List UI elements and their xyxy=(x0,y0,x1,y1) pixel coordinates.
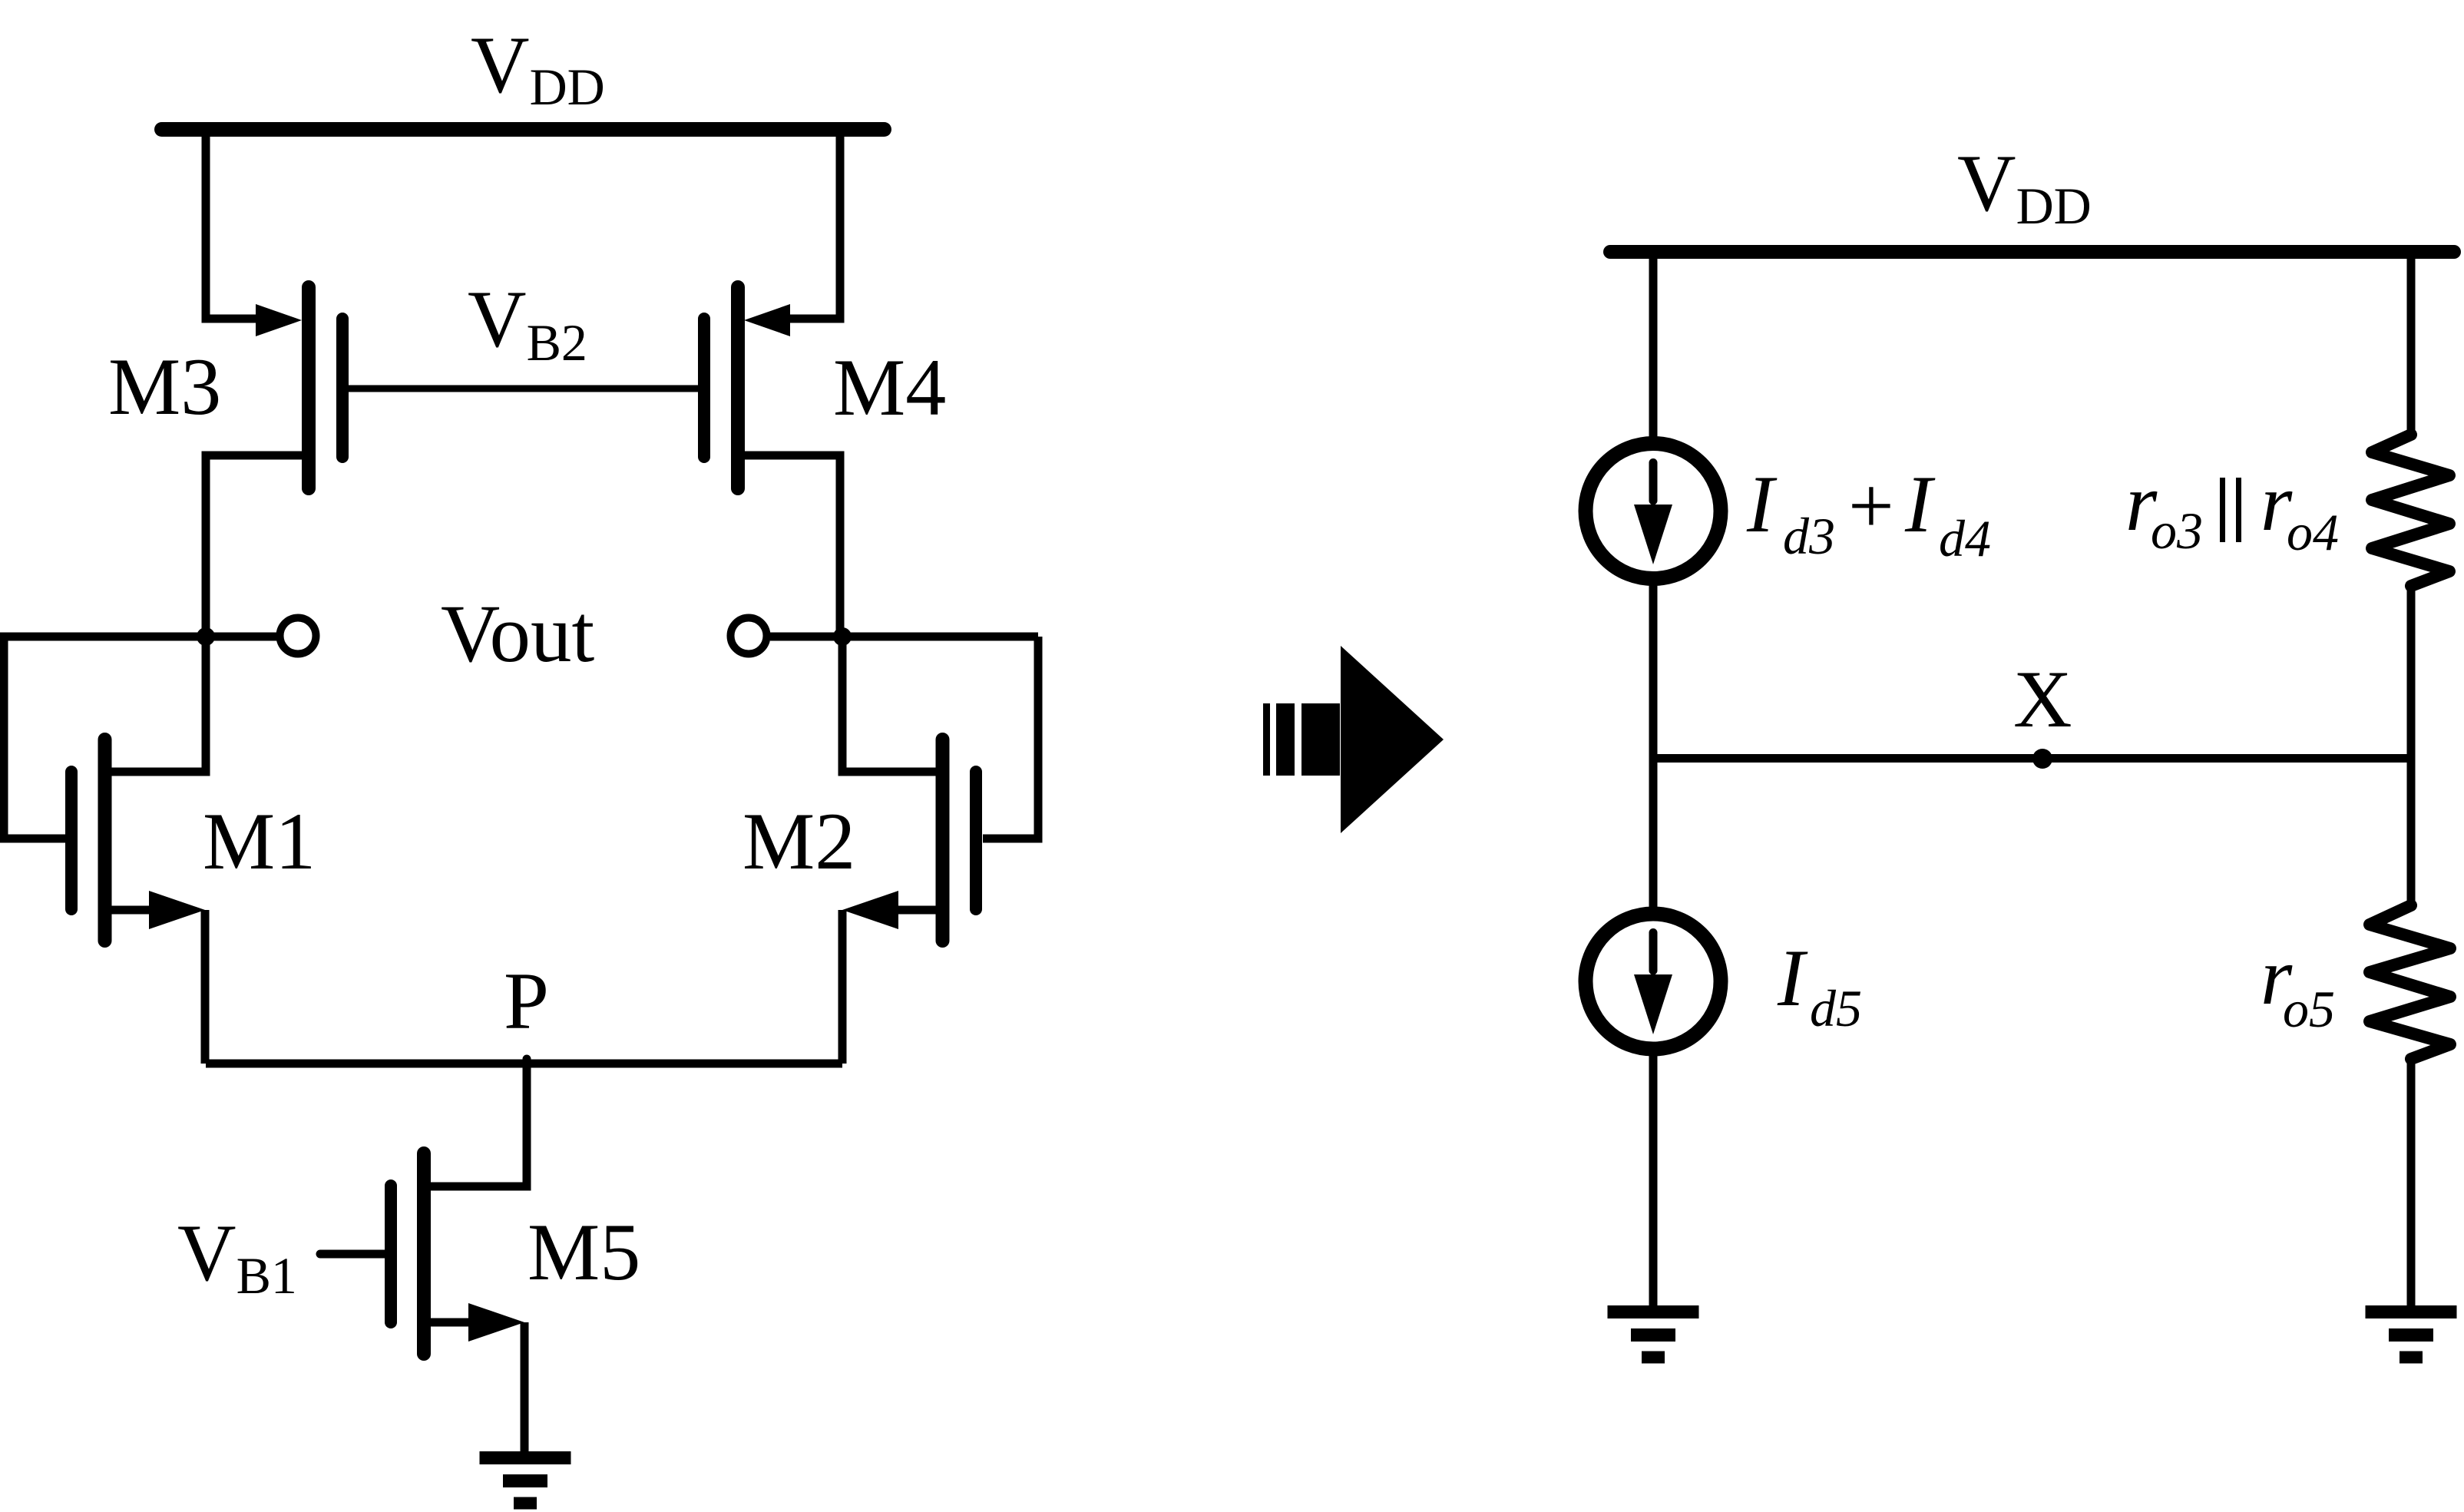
wire VDD to current source Id3+Id4 xyxy=(1649,246,1658,437)
ground below ro5 xyxy=(2366,1312,2457,1358)
transistor M1 channel bar xyxy=(98,739,112,941)
wire output right segment xyxy=(770,633,1038,641)
wire resistor ro5 to ground xyxy=(2407,1059,2416,1308)
wire resistor to node X to resistor ro5 xyxy=(2407,584,2416,907)
wire VDD to resistor ro3||ro4 xyxy=(2407,246,2416,438)
svg-text:X: X xyxy=(2013,654,2072,744)
M4 source arrow xyxy=(744,304,790,336)
terminal circle Vout right xyxy=(731,618,767,654)
wire M1 gate feedback xyxy=(4,637,66,839)
svg-text:+: + xyxy=(1848,461,1894,551)
label Id5 xyxy=(1777,933,1862,1037)
wire M5 drain to node P xyxy=(428,1059,527,1186)
wire M5 source to ground xyxy=(521,1322,529,1454)
svg-text:I: I xyxy=(1777,933,1808,1023)
current source Id5 xyxy=(1586,914,1721,1049)
svg-text:M2: M2 xyxy=(743,796,855,886)
wire M4 drain to output node xyxy=(743,455,840,637)
svg-text:d3: d3 xyxy=(1783,507,1835,565)
wire node X horizontal xyxy=(1653,754,2411,763)
resistor ro3||ro4 xyxy=(2372,435,2449,586)
svg-text:d4: d4 xyxy=(1939,509,1991,567)
wire M2 drain to output node xyxy=(842,640,938,772)
wire M1 source stub xyxy=(109,906,152,915)
svg-text:o5: o5 xyxy=(2283,980,2335,1038)
svg-text:o4: o4 xyxy=(2287,503,2339,561)
wire M2 source to node P xyxy=(838,910,847,1064)
wire output left segment xyxy=(0,633,277,641)
wire VB2 between gates xyxy=(347,385,699,392)
transistor M5 gate bar xyxy=(385,1186,397,1322)
M1 source arrow xyxy=(149,891,205,929)
ground below Id5 xyxy=(1608,1312,1699,1358)
VDD rail left xyxy=(162,122,885,137)
node dot X xyxy=(2032,749,2052,769)
wire M1 source to node P xyxy=(201,910,210,1064)
wire current source to node X to current source Id5 xyxy=(1649,584,1658,908)
VDD rail right xyxy=(1610,245,2454,259)
wire M3 drain to output node xyxy=(206,455,304,637)
current source Id3+Id4 xyxy=(1586,444,1721,579)
transistor M2 gate bar xyxy=(970,772,982,909)
svg-text:M3: M3 xyxy=(108,342,221,432)
wire node P xyxy=(206,1060,842,1068)
transistor M3 gate bar xyxy=(336,319,349,457)
svg-text:d5: d5 xyxy=(1810,979,1862,1037)
resistor ro5 xyxy=(2370,905,2450,1059)
transistor M4 channel bar xyxy=(731,287,745,488)
label ro3 || ro4 xyxy=(2125,458,2339,561)
svg-text:M5: M5 xyxy=(528,1207,640,1297)
svg-text:M4: M4 xyxy=(833,342,946,432)
svg-text:o3: o3 xyxy=(2151,501,2203,560)
wire M5 source stub xyxy=(428,1318,471,1327)
svg-text:P: P xyxy=(504,956,549,1046)
ground M5 xyxy=(480,1458,571,1504)
M5 source arrow xyxy=(468,1303,524,1342)
label Id3 + Id4 xyxy=(1746,459,1991,567)
implication arrow xyxy=(1263,646,1444,833)
wire M3 source to VDD xyxy=(206,123,258,319)
terminal circle Vout left xyxy=(280,618,316,654)
svg-text:Vout: Vout xyxy=(441,589,594,680)
svg-text:M1: M1 xyxy=(203,796,316,886)
node dot right output xyxy=(833,627,852,646)
parallel bars symbol xyxy=(2220,478,2225,542)
transistor M5 channel bar xyxy=(417,1153,431,1354)
transistor M1 gate bar xyxy=(65,772,78,909)
label ro5 xyxy=(2261,931,2335,1038)
wire VB1 gate stub xyxy=(320,1250,385,1259)
transistor M4 gate bar xyxy=(698,319,710,457)
svg-text:I: I xyxy=(1746,459,1778,549)
node dot left output xyxy=(197,627,215,646)
wire M4 source to VDD xyxy=(788,123,840,319)
svg-text:I: I xyxy=(1904,459,1936,549)
M2 source arrow xyxy=(842,891,898,929)
wire M2 gate feedback xyxy=(983,637,1038,839)
transistor M2 channel bar xyxy=(936,739,950,941)
wire M1 drain to output node xyxy=(109,640,206,772)
wire current source Id5 to ground xyxy=(1649,1049,1658,1308)
M3 source arrow xyxy=(256,304,302,336)
transistor M3 channel bar xyxy=(302,287,316,488)
wire M2 source stub xyxy=(895,906,938,915)
